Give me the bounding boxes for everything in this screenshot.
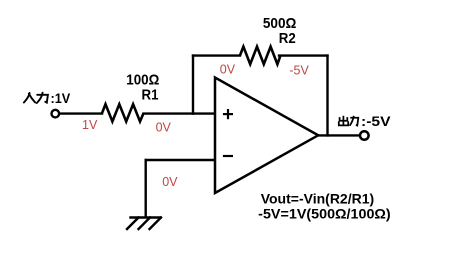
svg-text:1V: 1V bbox=[82, 118, 98, 132]
svg-text:0V: 0V bbox=[220, 62, 236, 76]
svg-text::-5V: :-5V bbox=[361, 114, 391, 129]
svg-text:-5V: -5V bbox=[289, 64, 309, 78]
svg-text:0V: 0V bbox=[156, 121, 172, 135]
svg-text:R1: R1 bbox=[142, 87, 159, 104]
svg-text::1V: :1V bbox=[51, 91, 71, 106]
svg-text:-5V=1V(500Ω/100Ω): -5V=1V(500Ω/100Ω) bbox=[258, 206, 391, 222]
svg-text:Vout=-Vin(R2/R1): Vout=-Vin(R2/R1) bbox=[261, 191, 375, 207]
svg-text:0V: 0V bbox=[162, 175, 178, 189]
svg-text:R2: R2 bbox=[279, 30, 296, 47]
